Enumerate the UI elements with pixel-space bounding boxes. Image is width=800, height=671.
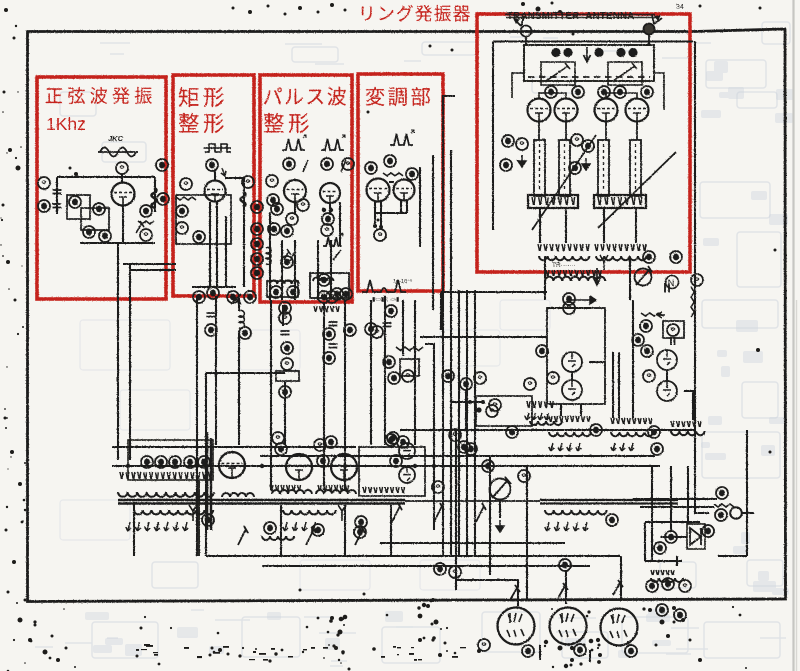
wire bus y543 — [380, 542, 565, 544]
circled 89 — [432, 481, 444, 493]
wire mid vert2 — [618, 352, 620, 404]
capacitor C3 — [281, 331, 290, 335]
svg-text:TR·······: TR······· — [552, 262, 576, 269]
circled 27 — [266, 175, 278, 187]
wire thick x207 — [206, 432, 209, 530]
circled 55 — [365, 323, 377, 335]
wire to V21 — [565, 570, 567, 604]
dashed line in network — [528, 76, 650, 78]
circled 94 — [465, 443, 477, 455]
down arrow output — [594, 268, 601, 285]
wire to V22 — [620, 556, 622, 601]
ring grid wire 2 — [606, 93, 637, 99]
label: shaping — [179, 113, 224, 133]
circled 54 — [385, 305, 397, 317]
wire y507 — [640, 506, 714, 508]
b3 winding left — [270, 280, 299, 284]
circled 113 — [679, 580, 691, 592]
wire drop x345 — [344, 505, 346, 556]
wire v645 — [644, 522, 646, 561]
circled 107 — [715, 509, 727, 521]
circled 81 — [202, 514, 214, 526]
circled 65 — [569, 162, 581, 174]
tuning diagonal left — [532, 135, 596, 230]
wire ant right drop — [645, 42, 649, 45]
inductor L1 dark — [152, 188, 157, 208]
circled 121 — [385, 434, 397, 446]
wire drop A — [455, 430, 457, 590]
wire rheostat down — [499, 500, 501, 518]
wire V4 cathode — [329, 203, 331, 215]
rectifier box tall — [547, 308, 605, 404]
circled 108 — [665, 531, 677, 543]
circled A — [286, 213, 298, 225]
circled stack 1 — [251, 201, 263, 213]
wire left leg — [56, 177, 58, 214]
circled 13 — [206, 159, 218, 171]
wire bus y430 — [400, 429, 695, 431]
circled 92 — [486, 405, 498, 417]
circled 94b — [442, 370, 454, 382]
circled 114 — [449, 566, 461, 578]
tube V19 — [399, 467, 415, 483]
taps z — [651, 570, 674, 575]
shorting bar left — [528, 195, 578, 208]
wire long rail x443 — [442, 100, 444, 556]
circled stack 3 — [251, 238, 263, 250]
circled 82 — [355, 516, 367, 528]
circled 4 — [93, 203, 105, 215]
circled 40b — [340, 288, 352, 300]
wire mid vert1 — [612, 352, 614, 404]
arrow mark 9 — [136, 221, 144, 233]
arrows k — [525, 413, 550, 420]
winding small — [222, 493, 254, 497]
wire V5-V6 link — [389, 181, 394, 183]
circled grid c — [598, 86, 610, 98]
ring tube V8 — [555, 99, 578, 122]
ring tube V10 — [626, 99, 649, 122]
wire stub 677 — [676, 556, 678, 566]
circled 57 — [383, 356, 395, 368]
pulse waveform sketch A — [282, 139, 305, 150]
circled 29 — [267, 194, 279, 206]
winding z — [651, 578, 683, 582]
capacitor small — [671, 337, 675, 345]
wire corner link — [718, 555, 747, 557]
wire stub btm l2 — [565, 208, 567, 243]
circled 122 — [397, 436, 409, 448]
circled 96 — [264, 522, 276, 534]
circled 49 — [323, 352, 335, 364]
wire drop x197 — [196, 480, 198, 556]
wire mid down1 — [612, 404, 614, 418]
circled 1 — [38, 177, 50, 189]
slash mark b — [341, 160, 346, 172]
wire exit right — [123, 263, 176, 265]
modulated pulse waveform row — [362, 280, 406, 292]
circled 123 — [325, 436, 337, 448]
circled 99 — [489, 399, 501, 411]
circled 6b — [99, 230, 111, 242]
switch contacts row2 — [238, 526, 248, 545]
wire ring left rail — [492, 42, 494, 231]
wire bus y566 — [262, 565, 590, 567]
heater arrows 2 — [611, 443, 634, 451]
component box b4 — [400, 359, 419, 376]
circled 43 — [281, 358, 293, 370]
circled 16 — [176, 205, 188, 217]
inductor L2 dark — [241, 192, 246, 207]
wire V1 out down — [117, 243, 119, 460]
circled 37 — [270, 286, 282, 298]
circled 26 — [342, 158, 354, 170]
wire to lamp — [695, 470, 709, 513]
circled T4 — [184, 456, 196, 468]
wire drop x391 — [390, 505, 392, 556]
heater winding 1 — [549, 432, 591, 436]
arrow shape b3 — [284, 249, 294, 261]
component box b3 — [276, 371, 299, 381]
circled 105 — [478, 639, 490, 651]
wire V1 cathode rail — [129, 264, 131, 460]
wire bus y337 — [420, 336, 547, 338]
arrow at V21 — [558, 583, 568, 598]
wire b3 long down3 — [344, 300, 346, 490]
circled 41 — [279, 312, 291, 324]
core bar long — [118, 500, 405, 504]
svg-text:34: 34 — [676, 4, 684, 11]
circled 109 — [702, 525, 714, 537]
V arrow center — [338, 505, 346, 521]
wire y499 — [633, 498, 717, 500]
center secondary arrows — [283, 522, 317, 531]
ring left feed — [512, 73, 524, 98]
ring top network box — [524, 45, 654, 81]
wire box out2 — [580, 404, 582, 416]
circled 101 — [482, 460, 494, 472]
winding under V16 — [272, 490, 312, 494]
cathode comb right — [595, 244, 646, 251]
capacitor C4 — [329, 322, 338, 326]
circled 117 — [474, 372, 486, 384]
right secondary winding — [545, 510, 607, 514]
circled 38 — [287, 286, 299, 298]
svg-text:JKC: JKC — [108, 134, 124, 143]
page edge scan line — [792, 0, 794, 671]
wire staircase 1 — [425, 344, 434, 530]
wire v652 — [651, 466, 653, 561]
wire seg2 — [284, 381, 286, 445]
circled 72a — [632, 334, 644, 346]
circled 78 — [590, 424, 602, 436]
circled 48 — [344, 324, 356, 336]
tube V3 pulse — [284, 180, 306, 202]
wire right inner rail — [694, 41, 696, 470]
wire mid down2 — [618, 404, 620, 418]
Y arrow — [600, 255, 608, 270]
wire b4 down4 — [414, 300, 416, 445]
circled 15 — [180, 178, 192, 190]
wire b3 down2 — [281, 240, 283, 300]
circled N — [666, 276, 679, 289]
tuning diagonal right — [598, 152, 676, 228]
circled 13a — [691, 274, 703, 286]
circled 110 — [654, 542, 666, 554]
tube V5 modulator — [367, 179, 390, 202]
small winding bottom — [262, 536, 294, 540]
circled 102 — [522, 645, 534, 657]
arrow right — [570, 296, 596, 304]
circled grid e — [641, 86, 653, 98]
wire b4 out right — [419, 167, 421, 247]
feed dots row — [551, 48, 560, 57]
svg-text:1μ-10⁻⁵: 1μ-10⁻⁵ — [393, 278, 412, 285]
switch contacts row — [392, 503, 402, 522]
red box: square shaping block — [173, 75, 254, 296]
circled 68 — [563, 293, 575, 305]
junction dots bus y466 — [126, 464, 130, 468]
arrow at V20 — [510, 585, 520, 600]
wire b3 down4 — [317, 240, 319, 300]
circled stack 4 — [251, 253, 263, 265]
heater arrows 1 — [549, 443, 581, 451]
wire b2 down 2 — [216, 202, 218, 287]
circled 112 — [662, 578, 674, 590]
crossing X mark — [231, 294, 241, 304]
left secondary arrows — [126, 522, 188, 531]
circled stack 2 — [251, 223, 263, 235]
circled 47 — [323, 328, 335, 340]
label: rectangle — [179, 87, 224, 107]
circled 39 — [318, 274, 330, 286]
circled 21 — [239, 327, 251, 339]
capacitor C6 — [383, 323, 392, 327]
cathode comb left — [538, 244, 589, 251]
wire long rail x459 — [458, 290, 460, 556]
resonant line stub — [534, 140, 545, 196]
circled 45 — [318, 291, 330, 303]
V arrow left — [189, 505, 197, 521]
b3 output box — [310, 273, 349, 298]
circled 58 — [388, 372, 400, 384]
heater winding 2 — [611, 432, 653, 436]
power tube V22 — [601, 609, 638, 646]
small box 77 — [663, 321, 684, 338]
wire stub btm r2 — [635, 208, 637, 243]
circled 20 — [205, 324, 217, 336]
circled 6 — [83, 226, 95, 238]
wire exit right 2 — [130, 269, 176, 271]
tube V13 — [657, 350, 677, 370]
arrow into R6 — [657, 312, 665, 318]
wire bus y466 — [112, 465, 660, 467]
wire b2 down 1 — [209, 202, 211, 287]
wire thick x211 — [210, 438, 212, 530]
feedback box 1 — [67, 195, 90, 219]
circled 118 — [449, 429, 461, 441]
circled 19 — [242, 176, 254, 188]
wire b2 bottom — [192, 286, 236, 288]
taps k arrows — [527, 401, 553, 408]
wire c7 to V1 — [121, 174, 123, 183]
resistor R3 — [176, 197, 196, 200]
circled 33 — [281, 225, 293, 237]
circled 44 — [279, 386, 291, 398]
tube V6 modulator — [394, 180, 415, 201]
circled 32 — [268, 223, 280, 235]
circled 22 — [193, 291, 205, 303]
ground ring 2 — [582, 158, 590, 170]
diode triangle — [690, 528, 701, 545]
wire bend x441 — [440, 292, 442, 330]
circled T5 — [198, 456, 210, 468]
red box: modulator block — [358, 74, 443, 291]
power tube V20 — [498, 608, 535, 645]
wire b3 down3 — [294, 240, 296, 300]
resonant line stub — [598, 140, 609, 196]
wire V20 out — [539, 645, 541, 660]
left xfmr frame — [128, 440, 213, 480]
right coupling box with slash — [608, 62, 642, 85]
circled 93 — [506, 426, 518, 438]
wire b2 down 3 — [225, 216, 227, 287]
wire V4 right down — [339, 202, 341, 247]
wire y561 — [645, 560, 682, 562]
wire stub btm l1 — [539, 208, 541, 243]
circled 61 — [516, 138, 528, 150]
wire bus y292 — [441, 291, 547, 293]
wire mid down3 — [632, 404, 634, 418]
wire V6 down — [400, 200, 402, 213]
circled T1 — [141, 456, 153, 468]
right secondary arrows — [545, 522, 588, 531]
bar hatch right — [598, 197, 642, 205]
left coupling box with slash — [541, 62, 575, 85]
svg-text:1Khz: 1Khz — [46, 114, 86, 134]
circled 59 — [402, 370, 414, 382]
circled 83 — [606, 514, 618, 526]
tube V16 — [286, 454, 312, 480]
down arrow in network — [584, 47, 591, 62]
tube V14 — [657, 381, 677, 401]
circled 15a — [643, 370, 655, 382]
circled 20a — [207, 287, 219, 299]
red box: pulse shaping block — [260, 75, 352, 302]
left xfmr primary — [118, 492, 214, 497]
text TRANSMITTER ANTENNA (struck out) — [505, 11, 657, 22]
heater taps 3 — [671, 421, 701, 427]
ring tube V9 — [595, 99, 618, 122]
circled 40a — [331, 288, 343, 300]
wire V3 cathode — [294, 202, 296, 215]
cathode winding left — [539, 256, 589, 260]
label: modulator — [366, 87, 430, 106]
indicator lamp — [730, 507, 742, 519]
tube V15 rectifier — [219, 452, 245, 478]
circled 79 — [648, 426, 660, 438]
red box: sine-wave oscillator block — [37, 77, 166, 299]
circled 120 — [674, 609, 686, 621]
slash mark c — [333, 250, 341, 260]
circled 60 — [502, 135, 514, 147]
wire b4 link — [375, 212, 407, 214]
circled 69 — [563, 302, 575, 314]
resistor R6 — [641, 313, 663, 316]
winding under V17 — [316, 490, 356, 494]
taps in box — [363, 487, 405, 493]
wire V5 down2 — [380, 201, 382, 226]
arrow into tube — [221, 168, 226, 176]
wire b4 down2 — [384, 296, 386, 445]
ring grid wire 1 — [539, 93, 566, 99]
wire ring out 2 — [629, 256, 631, 300]
heater winding 3 — [671, 431, 705, 435]
tube V17 — [331, 454, 357, 480]
wire to V20 — [456, 580, 518, 606]
power tube V21 — [550, 608, 587, 645]
circled T3 — [169, 456, 181, 468]
b3 bottom ticks — [314, 306, 339, 312]
circled 63 — [571, 134, 583, 146]
ground center — [496, 520, 504, 532]
circled 106 — [716, 487, 728, 499]
wire x206 down — [205, 373, 207, 556]
wire left drop — [133, 502, 135, 556]
wire b3 long down2 — [323, 303, 325, 490]
left secondary winding — [134, 510, 213, 514]
wire v671 — [670, 466, 672, 532]
output xfmr taps — [546, 270, 601, 276]
wire b3 long down1 — [270, 300, 272, 490]
circled 35 — [321, 224, 333, 236]
b3 winding right — [313, 278, 333, 281]
circled 56 — [371, 326, 383, 338]
wire lamp out — [742, 512, 754, 514]
circled 34 — [322, 213, 334, 225]
wire drop C — [526, 465, 528, 600]
feedback box 2 — [81, 208, 109, 230]
wire right leg — [154, 177, 156, 212]
circled 9 — [140, 229, 152, 241]
wire ant left drop — [525, 43, 527, 45]
wire tube pair link — [571, 372, 573, 380]
svg-text:TRANSMITTER ANTENNA: TRANSMITTER ANTENNA — [507, 11, 635, 22]
circled 115 — [434, 563, 446, 575]
tube V11 — [562, 352, 582, 372]
sine waveform sketch — [98, 148, 138, 157]
circled 46 — [326, 291, 338, 303]
wire b3 down1 — [269, 212, 271, 300]
wire drop x281 — [280, 505, 282, 556]
tube V4 pulse — [320, 183, 340, 203]
ring right feed — [654, 73, 664, 110]
rheostat circle — [490, 477, 512, 500]
ring tube V7 — [528, 99, 551, 122]
resistor R7 — [714, 504, 734, 507]
wire V5 down — [374, 201, 376, 226]
wire tube to line stub — [605, 122, 607, 141]
circled 52 — [406, 168, 418, 180]
wire y522 — [645, 521, 700, 523]
wire b4 long right — [432, 155, 434, 310]
heater taps 2 — [611, 418, 652, 424]
wire y402 — [450, 401, 485, 403]
tube V2 shaper — [205, 181, 226, 202]
circled 80 — [651, 443, 663, 455]
circled 24 — [283, 158, 295, 170]
circled 95 — [518, 470, 530, 482]
